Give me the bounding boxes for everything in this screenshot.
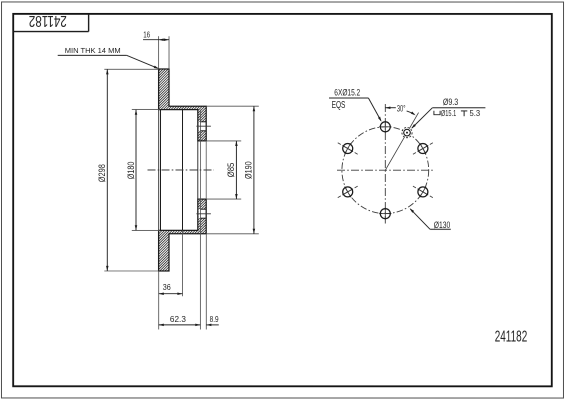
svg-text:5.3: 5.3	[470, 108, 481, 118]
svg-text:Ø130: Ø130	[434, 220, 451, 230]
svg-text:8.9: 8.9	[210, 315, 219, 324]
svg-text:Ø190: Ø190	[244, 161, 255, 179]
svg-text:30°: 30°	[397, 104, 406, 114]
svg-text:6XØ15.2: 6XØ15.2	[334, 88, 360, 98]
svg-text:36: 36	[163, 283, 171, 292]
svg-text:241182: 241182	[495, 328, 528, 345]
svg-text:Ø9.3: Ø9.3	[443, 97, 458, 107]
svg-text:EQS: EQS	[332, 100, 346, 111]
svg-text:16: 16	[143, 31, 150, 40]
svg-text:241182: 241182	[29, 12, 67, 29]
svg-text:Ø180: Ø180	[126, 162, 137, 180]
svg-text:Ø298: Ø298	[97, 164, 108, 182]
svg-text:MIN THK 14 MM: MIN THK 14 MM	[65, 46, 121, 55]
svg-text:62.3: 62.3	[170, 315, 186, 324]
svg-text:Ø85: Ø85	[226, 163, 237, 178]
svg-text:Ø15.1: Ø15.1	[441, 108, 456, 118]
